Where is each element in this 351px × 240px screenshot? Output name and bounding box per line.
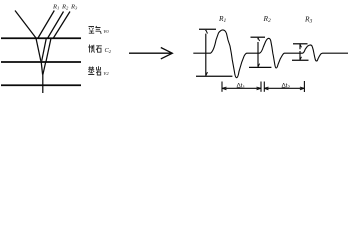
layer boundary line 2 [1, 61, 81, 63]
trace1 arrowhead up [206, 30, 208, 34]
source ray (down-going) [15, 11, 36, 39]
trace2 pick line (vertical) [257, 38, 259, 67]
trace3 arrowhead down [300, 57, 302, 60]
svg-text:R1: R1 [218, 14, 227, 24]
delta-t2 span line [264, 87, 304, 89]
trace1 pick line (vertical) [205, 30, 207, 76]
ray segment layer3 right [43, 62, 46, 75]
deep vertical ray [42, 74, 44, 93]
delta-t2 left arrowhead [264, 87, 268, 90]
delta-t1 right arrowhead [257, 87, 261, 90]
svg-text:R3: R3 [304, 15, 313, 25]
trace2 bottom amplitude bar [249, 66, 271, 68]
trace2 arrowhead up [258, 38, 260, 41]
seismic trace (baseline + three wavelets) [193, 30, 348, 78]
delta-t1 right bracket [260, 82, 262, 92]
trace3 arrowhead up [300, 44, 302, 47]
trace3 bottom amplitude bar [292, 59, 309, 61]
delta-t2 right bracket [303, 81, 305, 92]
up-going ray to R2 [48, 12, 64, 39]
up-going ray to R3 [53, 12, 70, 39]
delta-t1 left bracket [221, 82, 223, 92]
delta-t1 span line [222, 87, 260, 89]
trace3 pick line (vertical) [299, 44, 301, 60]
trace2 top amplitude bar [251, 36, 266, 38]
delta-t1 left arrowhead [222, 87, 226, 90]
svg-text:C2: C2 [105, 47, 112, 54]
delta-t2 left bracket [263, 82, 265, 92]
trace1 top amplitude bar [199, 28, 216, 30]
refracted ray below surface (to R3) [46, 38, 51, 62]
delta-t2 right arrowhead [300, 87, 304, 90]
trace2 arrowhead down [258, 64, 260, 67]
svg-text:v0: v0 [104, 28, 110, 35]
layer label riprap: 抛石 C [88, 45, 102, 53]
layer boundary line 3 [1, 84, 81, 86]
up-going ray to R1 [38, 11, 54, 39]
svg-text:v2: v2 [104, 70, 110, 77]
svg-text:Δt1: Δt1 [237, 83, 246, 91]
big arrow head [161, 48, 173, 59]
svg-text:R1: R1 [52, 4, 59, 11]
svg-text:Δt2: Δt2 [282, 83, 291, 91]
svg-text:R3: R3 [70, 4, 78, 11]
refracted ray below surface (from source) [36, 38, 41, 61]
layer label air: 空气 v0 [89, 26, 102, 33]
trace1 arrowhead down [206, 72, 208, 76]
trace3 top amplitude bar [293, 43, 308, 45]
big arrow shaft [129, 52, 172, 54]
trace1 bottom amplitude bar [196, 75, 232, 77]
svg-text:R2: R2 [263, 14, 272, 24]
ray segment layer3 left [41, 61, 43, 75]
svg-text:R2: R2 [61, 4, 69, 11]
layer label bedrock: 基岩 v2 [88, 66, 101, 75]
layer boundary line 1 (ground surface) [1, 37, 81, 39]
refracted ray below surface (to R2) [42, 38, 47, 61]
